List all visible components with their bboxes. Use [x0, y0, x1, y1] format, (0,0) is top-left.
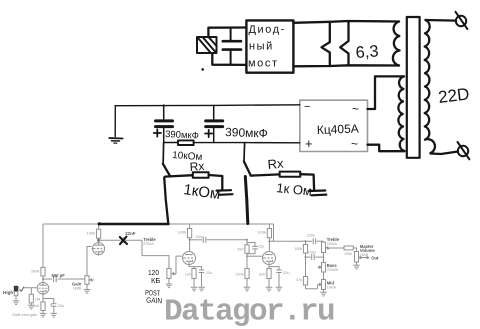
wire bottom bus (plus rail) [164, 142, 300, 144]
resistor 1k5 V3 cathode [185, 265, 198, 291]
svg-text:390: 390 [237, 248, 243, 252]
winding primary 220 (right of core) [425, 20, 435, 153]
pot Bass [318, 263, 339, 280]
resistor 100k V2 anode [87, 224, 101, 242]
resistor 100k V1 anode [31, 224, 45, 282]
resistor R3 Rx (hatched) [267, 156, 300, 177]
capacitor 22nF coupling [97, 231, 142, 243]
wire drop to switch S2 [243, 143, 246, 161]
svg-text:10p: 10p [258, 245, 264, 249]
wire 6.3V bottom rail [293, 65, 399, 66]
capacitor C_in [223, 28, 241, 65]
resistor 47k [296, 257, 317, 289]
capacitor 22u V1 [43, 299, 64, 318]
svg-text:22u: 22u [206, 271, 212, 275]
svg-text:390мкФ: 390мкФ [225, 125, 268, 140]
wire S1 down to preamp [164, 178, 168, 224]
svg-text:Rx: Rx [189, 159, 205, 174]
svg-text:−: − [304, 101, 310, 113]
terminal X1 (top right) [456, 12, 468, 29]
capacitor 500pF [42, 273, 85, 283]
svg-text:220kA: 220kA [143, 242, 154, 246]
BLACK_SCHEMATIC [98, 12, 471, 306]
resistor 1M [28, 288, 40, 309]
ground G1 (left) [109, 106, 122, 144]
node V4 out [268, 240, 270, 242]
pot post gain 120K [166, 256, 182, 288]
tube V3 [182, 252, 196, 266]
svg-text:220p: 220p [307, 233, 315, 237]
diode bridge box (Диодный мост) [246, 20, 293, 72]
winding HV secondary (left of core, lower) [398, 76, 404, 151]
wire mains bottom [212, 53, 246, 65]
winding 6.3V (left of core) [393, 22, 400, 66]
svg-text:Rx: Rx [267, 156, 285, 172]
break chevron right [340, 21, 348, 65]
switch S2 [244, 161, 251, 175]
svg-text:100k: 100k [178, 230, 187, 235]
svg-text:22u: 22u [58, 303, 65, 308]
svg-text:10k/A: 10k/A [327, 286, 337, 290]
capacitor C2 390uF [205, 105, 268, 142]
ground G3 [309, 191, 327, 196]
resistor 220k master [330, 246, 357, 256]
svg-text:100k: 100k [87, 230, 96, 235]
resistor 100k V4 anode [257, 224, 271, 251]
svg-text:High: High [3, 290, 13, 295]
wire S1 to R2 [165, 175, 193, 176]
pot Master Volume [353, 244, 375, 269]
resistor 100k slope [294, 240, 307, 257]
capacitor 220p [307, 233, 324, 244]
label 120 KB POST GAIN [145, 268, 162, 305]
wire B+ along preamp bus [99, 223, 168, 226]
pot Mid [318, 280, 337, 296]
svg-text:820: 820 [259, 272, 265, 276]
node dot [201, 68, 204, 71]
fuse F1 (hatched box) [197, 37, 217, 53]
svg-text:22u: 22u [283, 271, 289, 275]
label Treble left [143, 237, 156, 246]
svg-text:Кц405А: Кц405А [317, 122, 359, 137]
resistor 100k V3 anode [178, 224, 192, 251]
svg-text:1M/B: 1M/B [73, 287, 82, 291]
rectifier box KTs405A [300, 100, 368, 151]
svg-text:ный: ный [249, 41, 274, 53]
svg-text:КБ: КБ [151, 276, 160, 285]
wire primary top to terminal [426, 19, 457, 22]
capacitor 100n [189, 235, 247, 243]
resistor R2 Rx (hatched) [189, 159, 208, 178]
wire to V4 grid [247, 255, 262, 257]
svg-text:20dB extra gain: 20dB extra gain [12, 313, 37, 317]
svg-text:1к5: 1к5 [33, 303, 40, 308]
wire box~ top to winding [368, 76, 405, 109]
svg-text:100k: 100k [31, 269, 40, 274]
pot Gain 1M/B [72, 247, 93, 294]
svg-text:500 pF: 500 pF [52, 273, 66, 278]
ground G2 [217, 190, 233, 195]
input jack J1 [14, 286, 17, 301]
svg-text:100k: 100k [257, 230, 266, 235]
capacitor 100n tone [305, 251, 324, 261]
capacitor 22u V3 [194, 267, 212, 291]
GRAY_SCHEMATIC [3, 224, 379, 317]
svg-text:1M: 1M [35, 297, 41, 302]
svg-text:100n: 100n [308, 251, 316, 255]
wire R2 to ground [209, 175, 223, 190]
svg-text:22nF: 22nF [125, 231, 136, 236]
svg-text:GAIN: GAIN [146, 296, 162, 306]
tube V2 [92, 242, 105, 256]
capacitor 10p [247, 243, 264, 254]
wire box~ bottom to winding [368, 145, 405, 152]
svg-text:47k: 47k [296, 278, 302, 282]
svg-text:1к5: 1к5 [185, 272, 191, 276]
resistor 390 [237, 239, 249, 256]
wire R3 to ground [300, 174, 314, 189]
wire plate bus [43, 223, 274, 225]
svg-text:Out: Out [371, 255, 379, 260]
svg-text:~: ~ [352, 102, 359, 116]
ground jack [13, 301, 19, 305]
capacitor C1 390uF [154, 106, 199, 143]
wire bus elbow to tone stack [269, 224, 312, 241]
wire S2 down to preamp (thick) [245, 177, 248, 224]
switch S1 [163, 164, 170, 177]
tube V1 [37, 282, 49, 294]
wire jack to grid [18, 287, 37, 289]
break chevron left [322, 22, 330, 64]
jack tick [20, 287, 25, 292]
wire mains top [208, 28, 246, 38]
resistor R1 10k (hatched) [172, 140, 203, 163]
svg-text:22D: 22D [437, 84, 470, 107]
wire S2 to R3 [251, 174, 280, 175]
resistor 820 V4 cathode [259, 265, 272, 291]
wire drop to switch S1 [162, 143, 164, 163]
svg-text:Datagor.ru: Datagor.ru [164, 295, 334, 329]
node dot B+ [98, 222, 101, 225]
svg-text:мост: мост [248, 58, 279, 70]
svg-text:220k: 220k [235, 272, 243, 276]
resistor 1k5 V1 cathode [33, 294, 46, 317]
cross-out X mark [120, 237, 127, 245]
WATERMARK [164, 295, 336, 329]
svg-text:6,3: 6,3 [355, 42, 379, 62]
svg-text:100k: 100k [294, 247, 302, 251]
wire Out [362, 255, 379, 260]
resistor 220k grid leak [235, 255, 250, 291]
wire to post gain pot [142, 240, 169, 268]
svg-text:Диод-: Диод- [248, 23, 286, 36]
wire top bus (minus rail) [115, 104, 299, 107]
wire 6.3V top rail [293, 21, 399, 23]
tube V4 [262, 252, 276, 266]
wire primary bottom to terminal [431, 152, 459, 155]
svg-text:220kA: 220kA [327, 242, 338, 246]
svg-text:+: + [305, 136, 313, 151]
terminal X2 (bottom right) [458, 142, 470, 159]
svg-text:220k: 220k [344, 252, 352, 256]
transformer core [407, 17, 420, 158]
wire treble to bass [323, 253, 325, 263]
capacitor 22u V4 [269, 267, 289, 291]
pot Treble right [322, 237, 340, 253]
svg-text:220k/B: 220k/B [327, 268, 339, 272]
svg-text:100n: 100n [195, 235, 203, 239]
svg-text:~: ~ [351, 137, 358, 151]
